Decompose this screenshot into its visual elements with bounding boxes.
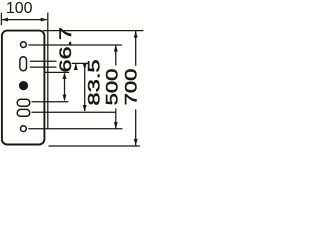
arrow 500 down [114,122,118,129]
dimension line 700 seg b [135,109,137,145]
hole circle bottom [21,126,27,132]
arrow 500 up [114,45,118,52]
dimension line 83.5 [84,63,86,111]
wire leader slot upper a [30,60,57,62]
wire vertical tie line [47,13,49,129]
dimension line 500 seg b [115,109,117,129]
svg-text:700: 700 [122,69,141,106]
wire leader bottom edge [49,145,140,147]
slot horizontal 2 [17,109,30,116]
hole circle top [21,42,27,48]
arrow 66.7 down [63,95,67,102]
slot vertical top [20,57,27,71]
wire leader fixture edge [44,71,69,73]
arrow 700 down [134,139,138,146]
dimension line 500 seg a [115,45,117,66]
dimension line 700 seg a [135,31,137,66]
wire leader top circle [28,44,122,46]
dimension line 100 [2,19,47,21]
hole filled circle center [19,81,28,90]
wire top-left extension line [0,13,2,26]
wire leader top edge [43,30,143,32]
svg-text:100: 100 [6,0,33,17]
slot horizontal 1 [17,99,30,106]
svg-text:500: 500 [103,69,122,106]
svg-text:66.7: 66.7 [57,27,75,72]
wire leader slot2 center [32,111,117,113]
arrow left of 100 [1,18,8,22]
wire leader bottom circle [28,128,122,130]
arrow 700 up [134,31,138,38]
arrow 66.7 up [63,72,67,79]
dimension line 66.7 [64,74,66,101]
wire leader slot upper a cont [72,62,89,64]
dimension stub arrow mid [75,63,77,69]
arrow right of 100 [41,18,48,22]
arrow mid up [74,63,78,70]
wire leader slot1 center [32,101,69,103]
wire leader slot upper b [30,66,57,68]
arrow 83.5 down [83,105,87,112]
svg-text:83.5: 83.5 [85,59,104,105]
arrow 83.5 up [83,63,87,70]
fixture body outline [2,31,45,145]
